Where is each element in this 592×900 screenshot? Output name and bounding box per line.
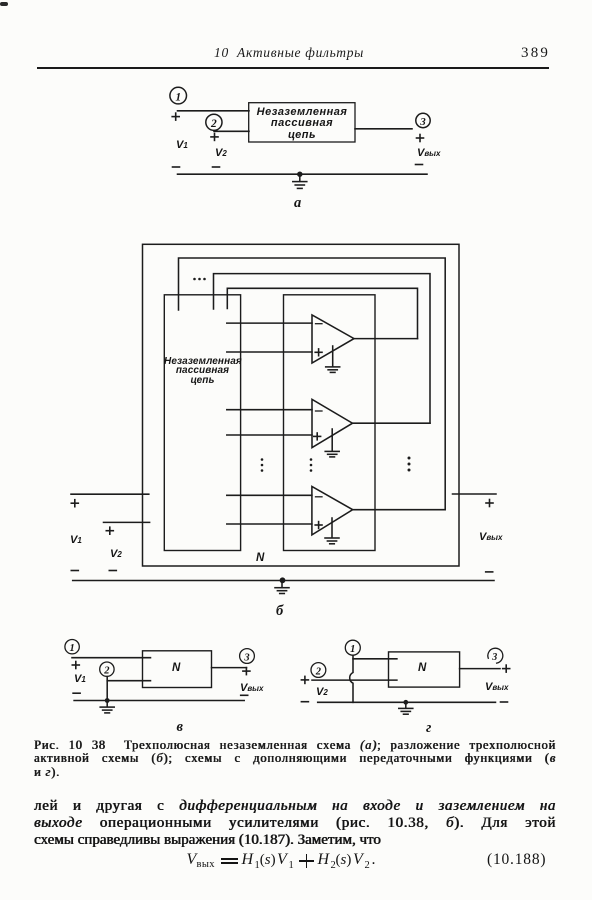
- op-amp U1 ground: [326, 346, 340, 372]
- plus sign terminal 2: [211, 133, 218, 140]
- svg-text:2: 2: [210, 118, 217, 130]
- N label (fig b): [256, 552, 264, 564]
- common bottom wire (fig b): [73, 580, 494, 582]
- plus sign (fig g left): [301, 676, 308, 683]
- V2 minus sign (fig g left): [301, 701, 308, 703]
- wire input 2 (fig g): [312, 679, 397, 681]
- minus sign output: [486, 571, 493, 573]
- svg-text:3: 3: [419, 116, 426, 128]
- node 3 circle (fig v): [240, 649, 255, 664]
- wire node2 to ground (fig v): [106, 677, 108, 701]
- op-amp U2: [312, 399, 353, 447]
- outer network box N: [143, 244, 460, 566]
- op-amp U3 input wires: [227, 495, 312, 524]
- N label (fig v): [172, 662, 180, 674]
- plus sign output: [486, 500, 493, 507]
- common bottom wire (fig v): [74, 700, 244, 702]
- network box N (fig g): [389, 652, 460, 687]
- equation number: [487, 851, 546, 869]
- svg-text:3: 3: [491, 652, 497, 663]
- plus sign (fig v left): [72, 662, 79, 669]
- label v: [177, 719, 183, 736]
- Vout label (fig a): [417, 147, 440, 159]
- plus sign terminal 3: [417, 135, 424, 142]
- minus sign Vout: [416, 164, 423, 166]
- ground junction dot (fig a): [297, 172, 302, 177]
- plus sign (fig g right): [503, 665, 510, 672]
- wire node1 to ground with hop (fig g): [350, 655, 353, 702]
- figure caption: [34, 739, 556, 752]
- wire output (fig v): [212, 667, 247, 669]
- ground symbol (fig b): [275, 581, 289, 594]
- wire tap node1 to box (fig g): [353, 658, 397, 660]
- ground junction dot (fig v): [105, 698, 110, 703]
- node 2 circle (fig g): [311, 663, 326, 678]
- header rule: [37, 67, 549, 69]
- ground symbol (fig v): [100, 701, 114, 713]
- common bottom wire (fig g): [318, 701, 496, 703]
- ellipsis dots (top left): [193, 278, 206, 281]
- passive network box (fig a): [249, 103, 355, 142]
- svg-text:1: 1: [350, 644, 355, 655]
- op-amp U3 output wire: [353, 509, 446, 511]
- Vout label (fig b): [479, 531, 502, 543]
- node 3 circle (fig g): [488, 648, 503, 663]
- feedback wire 2: [214, 274, 431, 424]
- ground symbol (fig a): [293, 174, 307, 188]
- node 1 terminal circle: [170, 87, 187, 104]
- vertical dots right: [408, 457, 411, 472]
- left input wire V1: [71, 493, 149, 495]
- ground junction dot (fig b): [280, 577, 286, 583]
- network box N (fig v): [143, 651, 212, 688]
- page number 389: [521, 45, 550, 62]
- minus sign (fig g right): [501, 701, 508, 703]
- feedback wire 3: [227, 288, 417, 338]
- minus sign (fig v left): [73, 692, 80, 694]
- svg-text:2: 2: [103, 666, 110, 677]
- wire input 2: [214, 130, 249, 132]
- node 2 circle (fig v): [100, 662, 114, 677]
- ground symbol (fig g): [399, 702, 413, 714]
- wire output (fig g): [460, 668, 500, 670]
- op-amp U1 input wires: [227, 323, 312, 352]
- op-amp U2 output wire: [353, 422, 431, 424]
- svg-text:1: 1: [175, 91, 181, 103]
- wire output 3: [355, 128, 412, 130]
- passive box label (fig a): [249, 107, 355, 141]
- V2 label (fig a): [215, 147, 227, 159]
- svg-text:1: 1: [69, 643, 74, 654]
- right output wire: [453, 493, 497, 495]
- equation 10.188: [187, 851, 197, 869]
- minus sign left V2: [109, 570, 116, 572]
- V2 label (fig b): [110, 548, 122, 560]
- N label (fig g): [418, 662, 426, 674]
- V1 label (fig v): [74, 673, 86, 685]
- op-amp U1 output wire: [354, 338, 418, 340]
- op-amp U2 ground: [325, 429, 339, 457]
- op-amp U1: [312, 315, 354, 363]
- node 3 terminal circle: [416, 113, 430, 128]
- feedback wire 1 (top): [179, 258, 446, 509]
- plus sign terminal 1: [172, 113, 179, 120]
- V2 label (fig g): [316, 686, 328, 698]
- svg-text:3: 3: [243, 652, 249, 663]
- wire input 1: [178, 110, 250, 112]
- wire input 2 (fig v): [107, 680, 150, 682]
- vertical dots left: [261, 458, 264, 472]
- label a: [294, 195, 301, 212]
- minus sign left V1: [71, 570, 78, 572]
- plus sign left V1: [71, 500, 78, 507]
- left input wire V2: [104, 521, 150, 523]
- op-amp U3 ground: [325, 518, 339, 544]
- op-amp U2 input wires: [227, 410, 312, 435]
- ground junction dot (fig g): [403, 700, 408, 705]
- passive box label (fig b): [164, 357, 241, 386]
- body text: [34, 798, 556, 815]
- minus sign V1: [173, 166, 180, 168]
- ungrounded passive circuit box: [164, 295, 240, 551]
- V1 label (fig b): [70, 534, 82, 546]
- corner smudge: [0, 2, 8, 6]
- label b: [276, 603, 283, 620]
- op-amp U3: [312, 486, 353, 535]
- label g: [426, 720, 431, 737]
- common bottom wire (fig a): [178, 173, 428, 175]
- op-amp column box: [284, 295, 376, 551]
- running head: [214, 45, 364, 61]
- node 1 circle (fig v): [65, 640, 79, 655]
- plus sign left V2: [106, 527, 113, 534]
- vertical dots middle: [310, 458, 313, 472]
- Vout label (fig g): [485, 681, 508, 693]
- Vout label (fig v): [240, 682, 263, 694]
- node 2 terminal circle: [206, 114, 222, 130]
- node 1 circle (fig g): [345, 640, 360, 655]
- wire input 1 (fig v): [72, 657, 151, 659]
- minus sign (fig v right): [241, 694, 248, 696]
- plus sign (fig v right): [243, 668, 250, 675]
- V1 label (fig a): [176, 139, 188, 151]
- minus sign V2: [213, 166, 220, 168]
- svg-text:2: 2: [315, 666, 322, 677]
